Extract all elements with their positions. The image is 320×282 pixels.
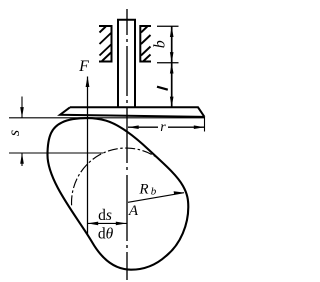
svg-text:R: R xyxy=(138,182,148,198)
svg-text:r: r xyxy=(160,120,166,135)
svg-text:b: b xyxy=(151,186,157,198)
svg-text:F: F xyxy=(78,58,89,75)
svg-text:s: s xyxy=(6,130,23,136)
svg-text:b: b xyxy=(152,40,169,48)
svg-text:ds: ds xyxy=(98,207,112,224)
svg-text:dθ: dθ xyxy=(98,226,114,243)
svg-text:A: A xyxy=(128,203,139,219)
